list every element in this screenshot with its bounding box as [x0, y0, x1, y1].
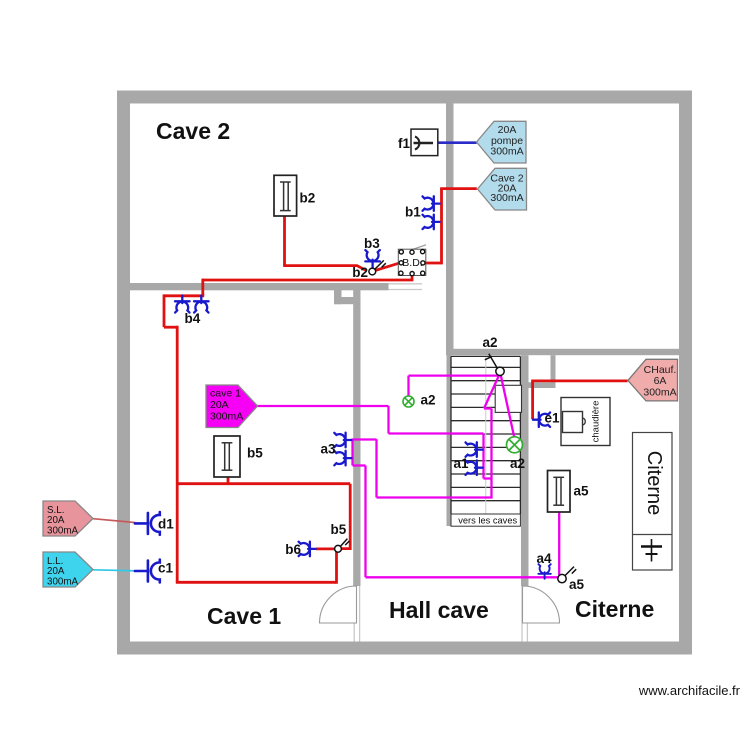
wire up to b5 switch bottom	[335, 552, 338, 584]
svg-text:c1: c1	[158, 561, 174, 576]
MAGENTA WIRES	[258, 375, 560, 577]
wire long drop to hall	[364, 466, 366, 578]
svg-text:300mA: 300mA	[47, 577, 79, 588]
svg-text:www.archifacile.fr: www.archifacile.fr	[638, 683, 741, 698]
stair label strip	[451, 514, 520, 526]
svg-text:b5: b5	[247, 446, 263, 461]
stair landing box	[495, 385, 521, 412]
wire L.L. to c1	[93, 570, 136, 571]
wire b2 lamp stem	[283, 216, 286, 266]
wire cave1 left riser	[176, 326, 179, 583]
svg-text:Cave 2: Cave 2	[156, 118, 230, 144]
wire a3 right bus	[351, 440, 353, 466]
wire a2 lamp stem	[407, 376, 409, 396]
breaker tag CHauf	[628, 359, 678, 401]
wire b6 stem	[316, 548, 335, 551]
wire a2 lamp to a2 switch	[409, 374, 500, 376]
wire cave1 bottom run	[176, 581, 337, 584]
lamp point b4 right	[194, 296, 209, 313]
switch a5	[558, 567, 576, 583]
svg-text:300mA: 300mA	[490, 145, 523, 157]
RED WIRES	[164, 189, 628, 584]
wall cave2 bottom	[130, 283, 389, 290]
lamp point a4	[538, 564, 550, 579]
wire riser to Cave2 breaker tag	[440, 187, 477, 190]
svg-text:a3: a3	[320, 442, 336, 457]
svg-text:a2: a2	[483, 335, 498, 350]
wire run to a3 path	[377, 496, 493, 498]
wire switch leg left	[484, 375, 499, 408]
wire cave1 tag run	[258, 405, 389, 407]
wire a3 top stem ext	[351, 438, 376, 440]
lamp fixture b5	[214, 436, 240, 477]
switch b2	[369, 260, 386, 275]
wire b2 lamp to b2 switch	[283, 266, 367, 271]
svg-text:a5: a5	[569, 577, 585, 592]
door jamb citerne	[521, 586, 523, 642]
wall outer right	[679, 91, 692, 655]
svg-text:300mA: 300mA	[47, 526, 79, 537]
svg-text:Cave 1: Cave 1	[207, 603, 281, 629]
svg-text:vers les caves: vers les caves	[458, 516, 517, 526]
breaker tag 20A pompe	[477, 121, 527, 163]
lamp point b6	[299, 542, 316, 557]
wire S.L. to d1	[93, 519, 136, 523]
svg-text:cave 1: cave 1	[210, 388, 241, 400]
svg-text:b5: b5	[331, 522, 347, 537]
lamp a2 small green	[403, 396, 414, 407]
switch a2	[485, 354, 504, 376]
door jamb cave1	[353, 586, 355, 642]
lamp point a3 top	[334, 433, 351, 448]
wire right drop to b5 switch	[341, 484, 351, 549]
lamp fixture a5	[548, 471, 571, 513]
socket f1	[411, 129, 438, 156]
svg-text:b2: b2	[352, 265, 368, 280]
wire run to stairs	[389, 432, 484, 434]
wire switch leg right to big lamp	[501, 375, 514, 437]
wire b5 lamp stem	[227, 477, 230, 484]
wire stair drop A	[482, 434, 484, 479]
lamp point c1	[135, 560, 160, 583]
wire f1 blue	[438, 141, 477, 144]
wall piece citerne nw	[521, 382, 556, 388]
svg-text:300mA: 300mA	[210, 411, 243, 423]
svg-text:a2: a2	[421, 393, 436, 408]
svg-text:Hall cave: Hall cave	[389, 597, 489, 623]
svg-text:B.D.: B.D.	[402, 257, 422, 269]
wall citerne west	[521, 355, 529, 586]
svg-text:chaudière: chaudière	[591, 401, 602, 443]
svg-text:b2: b2	[300, 191, 316, 206]
lamp point b4 left	[175, 296, 190, 313]
wall outer bottom	[117, 642, 692, 655]
wire a5 lamp stem	[558, 512, 560, 575]
wire long run above cave2 bottom wall	[203, 279, 414, 282]
svg-text:b1: b1	[405, 205, 421, 220]
stair center line	[485, 357, 487, 514]
boiler box	[561, 398, 610, 446]
breaker tag cave 1	[206, 385, 258, 428]
lamp point b1 bottom	[423, 215, 440, 230]
wall stub citerne	[551, 355, 556, 387]
wall stub U left	[334, 289, 342, 304]
WALLS	[117, 91, 692, 655]
stair steps	[451, 356, 520, 514]
wall stairs top	[446, 349, 679, 355]
wire a3 drop	[375, 439, 377, 497]
door arc citerne	[523, 586, 560, 623]
breaker tag L.L.	[43, 552, 93, 588]
wire CHauf drop to e1	[531, 381, 534, 419]
wire b4 run	[164, 294, 204, 297]
svg-text:a1: a1	[454, 456, 470, 471]
wire stair riser B	[490, 409, 492, 498]
lamp fixture b2	[274, 175, 297, 216]
lamp a2 big green	[507, 437, 523, 453]
door arc cave1	[320, 586, 357, 623]
wire BD bottom stem	[411, 275, 414, 280]
wall outer left	[117, 91, 130, 655]
svg-text:d1: d1	[158, 517, 174, 532]
junction box BD	[398, 245, 426, 276]
wall stub U bottom	[334, 297, 361, 304]
svg-text:Citerne: Citerne	[575, 596, 654, 622]
svg-text:20A: 20A	[210, 399, 229, 411]
wire jog	[164, 326, 177, 329]
lamp point b3	[365, 250, 380, 267]
lamp point e1	[533, 412, 550, 427]
svg-text:a4: a4	[537, 551, 553, 566]
wire BD right port to b1 riser	[426, 262, 442, 265]
svg-text:Citerne: Citerne	[643, 451, 665, 515]
wire b4 down left	[163, 294, 166, 327]
wire drop through wall to b4	[201, 279, 204, 296]
lamp point d1	[135, 512, 160, 535]
door opening lines cave2 bottom	[354, 284, 527, 642]
lamp point a3 bottom	[334, 451, 351, 466]
breaker tag Cave 2	[478, 168, 527, 210]
svg-text:b3: b3	[364, 236, 380, 251]
svg-text:b6: b6	[285, 542, 301, 557]
svg-text:300mA: 300mA	[490, 192, 523, 204]
svg-text:e1: e1	[545, 411, 561, 426]
wall outer top	[117, 91, 692, 104]
wall divider cave1/hall	[353, 289, 360, 586]
wire cave1 upper run	[177, 482, 350, 485]
svg-text:a5: a5	[574, 484, 590, 499]
wire CHauf run	[531, 379, 627, 382]
svg-text:300mA: 300mA	[643, 386, 676, 398]
wire joint	[484, 477, 492, 479]
lamp point a1 bottom	[466, 460, 483, 475]
cistern box	[633, 433, 673, 571]
STAIRCASE	[447, 355, 522, 526]
wire a3 bottom jog	[353, 464, 366, 466]
wall divider cave2/right room	[446, 103, 454, 355]
svg-text:b4: b4	[185, 311, 201, 326]
svg-text:a2: a2	[510, 456, 525, 471]
wire b2 switch to BD left port	[376, 263, 399, 270]
wire hall long run to a5 switch	[366, 576, 559, 578]
lamp point a1 top	[466, 442, 483, 457]
svg-text:6A: 6A	[654, 375, 667, 387]
breaker tag S.L.	[43, 501, 93, 537]
wire drop	[387, 406, 389, 434]
lamp point b1 top	[423, 196, 440, 211]
stair left band	[447, 355, 452, 526]
wire b1 riser	[440, 189, 443, 265]
switch b5	[335, 539, 350, 553]
svg-text:f1: f1	[398, 136, 410, 151]
